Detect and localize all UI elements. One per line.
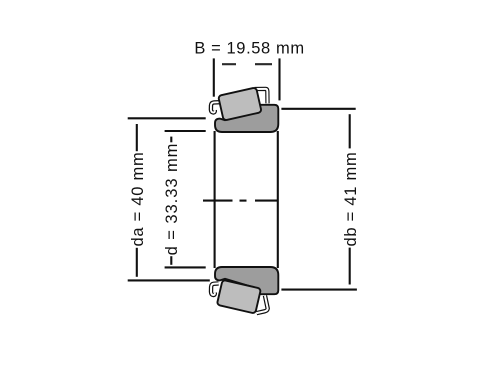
cage hook left top: [211, 102, 220, 112]
dimension line B left extension: [213, 58, 215, 96]
label db = 41 mm: [343, 151, 360, 246]
dimension line da vertical (two segments): [136, 124, 138, 151]
cone (inner ring) top half: [215, 105, 278, 132]
label d = 33.33 mm: [164, 142, 181, 255]
centerline axis short dash: [240, 200, 247, 202]
dimension line db vertical (two segments): [349, 114, 351, 148]
leader line db bottom: [281, 289, 357, 291]
centerline axis long dash right: [255, 200, 278, 202]
label B = 19.58 mm: [194, 40, 304, 59]
inner ring bore left edge: [214, 131, 216, 268]
leader line da top: [128, 117, 206, 119]
cone (inner ring) bottom half (mirror): [215, 267, 278, 294]
leader line d bottom: [165, 266, 206, 268]
dimension B dashed line, dash 1: [222, 63, 236, 65]
leader line d top: [165, 130, 206, 132]
leader line db top: [281, 108, 355, 110]
inner ring bore right edge: [277, 131, 279, 268]
cage hook left bottom: [211, 283, 219, 295]
cage prong right top: [255, 89, 268, 104]
leader line da bottom: [128, 279, 210, 281]
dimension B dashed line, dash 2: [255, 63, 272, 65]
dimension line B right extension: [278, 58, 280, 100]
tapered roller bottom: [217, 280, 261, 314]
label da = 40 mm: [129, 152, 146, 247]
centerline axis long dash left: [203, 200, 233, 202]
tapered roller top: [218, 87, 261, 120]
dimension line d vertical (two segments): [170, 137, 172, 143]
cage prong right bottom: [257, 296, 268, 314]
